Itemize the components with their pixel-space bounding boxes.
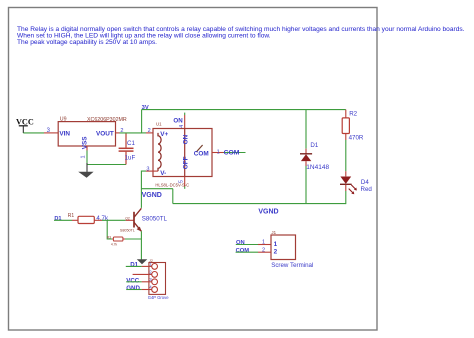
diode D1 branch wire top [305, 110, 307, 149]
wire grove pin1 [126, 265, 142, 267]
svg-text:The peak voltage capability is: The peak voltage capability is 250V at 1… [17, 39, 157, 46]
wire R2 to LED [345, 140, 347, 171]
svg-text:VGND: VGND [258, 209, 278, 216]
LED D4 [340, 171, 357, 194]
pin stub VIN pin3 [44, 132, 58, 134]
svg-text:1: 1 [81, 155, 87, 158]
ground at emitter [137, 259, 148, 264]
svg-text:VOUT: VOUT [96, 131, 114, 138]
svg-text:3V: 3V [142, 105, 149, 111]
svg-text:COM: COM [194, 150, 209, 157]
svg-text:2: 2 [262, 247, 265, 253]
pin stub relay ON pin4 [184, 115, 186, 129]
light arrows [351, 185, 356, 190]
svg-text:VGND: VGND [142, 192, 162, 199]
wire COM to J1 pin2 [236, 251, 258, 253]
wire VSS down [86, 151, 88, 166]
wire COM net [224, 152, 246, 154]
switch lever [196, 145, 202, 152]
pin stub VSS pin1 [86, 146, 88, 151]
resistor R2 lead top [345, 110, 347, 118]
svg-text:J1: J1 [271, 230, 276, 235]
svg-text:COM: COM [224, 149, 240, 156]
wire emitter down [140, 231, 142, 260]
svg-text:Screw Terminal: Screw Terminal [271, 262, 313, 269]
wire VSS to C1 bottom [87, 164, 127, 166]
wire D1 label to R1 [54, 219, 72, 221]
pin stub J1 pin1 [258, 244, 271, 246]
node 3V riser [141, 110, 143, 134]
svg-text:2: 2 [148, 128, 151, 134]
frame border [9, 8, 378, 331]
svg-text:1: 1 [262, 240, 265, 246]
wire VOUT to 3V node [120, 132, 142, 134]
svg-text:1uF: 1uF [125, 154, 136, 161]
resistor R2 lead bottom [345, 134, 347, 141]
grove pins [133, 264, 158, 293]
resistor R1 lead left [72, 219, 78, 221]
wire LED to VGND rail [345, 191, 347, 204]
collector diagonal [134, 208, 141, 217]
svg-text:Q2: Q2 [125, 217, 130, 221]
pin stub relay V+ pin2 [146, 132, 158, 134]
resistor R2 body [342, 118, 349, 134]
svg-text:D1: D1 [54, 216, 61, 222]
wire 3V to relay V+ [142, 132, 146, 134]
svg-text:VCC: VCC [126, 277, 140, 284]
svg-text:Red: Red [361, 186, 373, 193]
wire VCC to VIN [23, 132, 44, 134]
svg-text:4: 4 [179, 125, 185, 128]
svg-text:S8050TL: S8050TL [120, 228, 135, 232]
wire VGND drop [172, 189, 174, 204]
resistor R1 body [78, 216, 94, 223]
coil [158, 133, 161, 171]
svg-text:S8050TL: S8050TL [142, 215, 168, 222]
svg-text:V+: V+ [160, 131, 168, 138]
relay U1 box [153, 129, 212, 177]
svg-text:XC6206P302MR: XC6206P302MR [87, 117, 127, 123]
svg-text:1: 1 [274, 241, 278, 248]
diode D1 [300, 149, 312, 166]
svg-text:R1: R1 [68, 213, 75, 219]
wire stub ON net [184, 113, 186, 115]
svg-text:VIN: VIN [59, 131, 70, 138]
3V rail wire [142, 109, 346, 111]
supply VCC [16, 117, 34, 133]
wire D1 to VGND rail [305, 166, 307, 204]
regulator U9 box [58, 122, 115, 146]
svg-text:R2: R2 [349, 111, 357, 118]
svg-text:U1: U1 [156, 121, 162, 126]
screw terminal J1 box [271, 235, 296, 260]
svg-text:4.7k: 4.7k [111, 242, 118, 246]
svg-text:ON: ON [173, 118, 183, 125]
wire VGND bottom rail [173, 203, 346, 205]
svg-text:GND: GND [126, 285, 140, 292]
pin stub relay COM pin1 [212, 152, 224, 154]
svg-text:1: 1 [217, 149, 220, 155]
wire ON to J1 pin1 [236, 244, 258, 246]
svg-text:VCC: VCC [16, 117, 34, 126]
wire R1 to base [102, 219, 126, 221]
emitter diagonal [134, 222, 141, 231]
svg-text:C1: C1 [127, 140, 135, 147]
capacitor C1 [119, 134, 134, 165]
svg-text:ON: ON [183, 134, 190, 144]
grove connector J2 [149, 263, 166, 295]
svg-text:COM: COM [236, 248, 250, 254]
wire grove pin3 [126, 281, 141, 283]
wire R3 to emitter [125, 238, 141, 240]
svg-text:ON: ON [236, 240, 245, 246]
resistor R1 lead right [94, 219, 102, 221]
svg-text:VSS: VSS [82, 136, 89, 150]
svg-text:V-: V- [160, 170, 166, 177]
pin stub relay V- pin3 [146, 170, 158, 172]
transistor Q1 S8050TL [134, 208, 142, 231]
svg-text:G4P Grove: G4P Grove [148, 295, 170, 300]
svg-text:R3: R3 [107, 235, 111, 239]
svg-text:2: 2 [274, 248, 278, 255]
wire VGND from junction to OFF pin [141, 188, 173, 190]
pin stub J1 pin2 [258, 251, 271, 253]
ground stem [86, 163, 88, 172]
leads R3 [112, 238, 113, 240]
relay ON-OFF internal pin line [184, 129, 186, 177]
svg-text:OFF: OFF [183, 156, 190, 169]
base bar [133, 212, 135, 228]
resistor R3 body [113, 237, 123, 241]
emitter arrow [137, 227, 142, 232]
wire grove pin4 [126, 289, 141, 291]
pin stub base [126, 219, 134, 221]
svg-text:3: 3 [146, 166, 149, 172]
svg-text:5: 5 [179, 180, 185, 183]
ground symbol [78, 172, 93, 178]
pin stub VOUT pin2 [116, 132, 120, 134]
description text [17, 26, 465, 46]
svg-text:U9: U9 [60, 117, 67, 123]
svg-text:D1: D1 [130, 262, 138, 269]
pin stub relay OFF pin5 [184, 177, 186, 187]
wire V- to collector [141, 171, 146, 208]
wire base to R3 [107, 220, 112, 239]
svg-text:470R: 470R [349, 134, 364, 141]
svg-text:D1: D1 [310, 142, 318, 149]
grove pin numbers [149, 261, 152, 289]
svg-text:1N4148: 1N4148 [306, 164, 329, 171]
